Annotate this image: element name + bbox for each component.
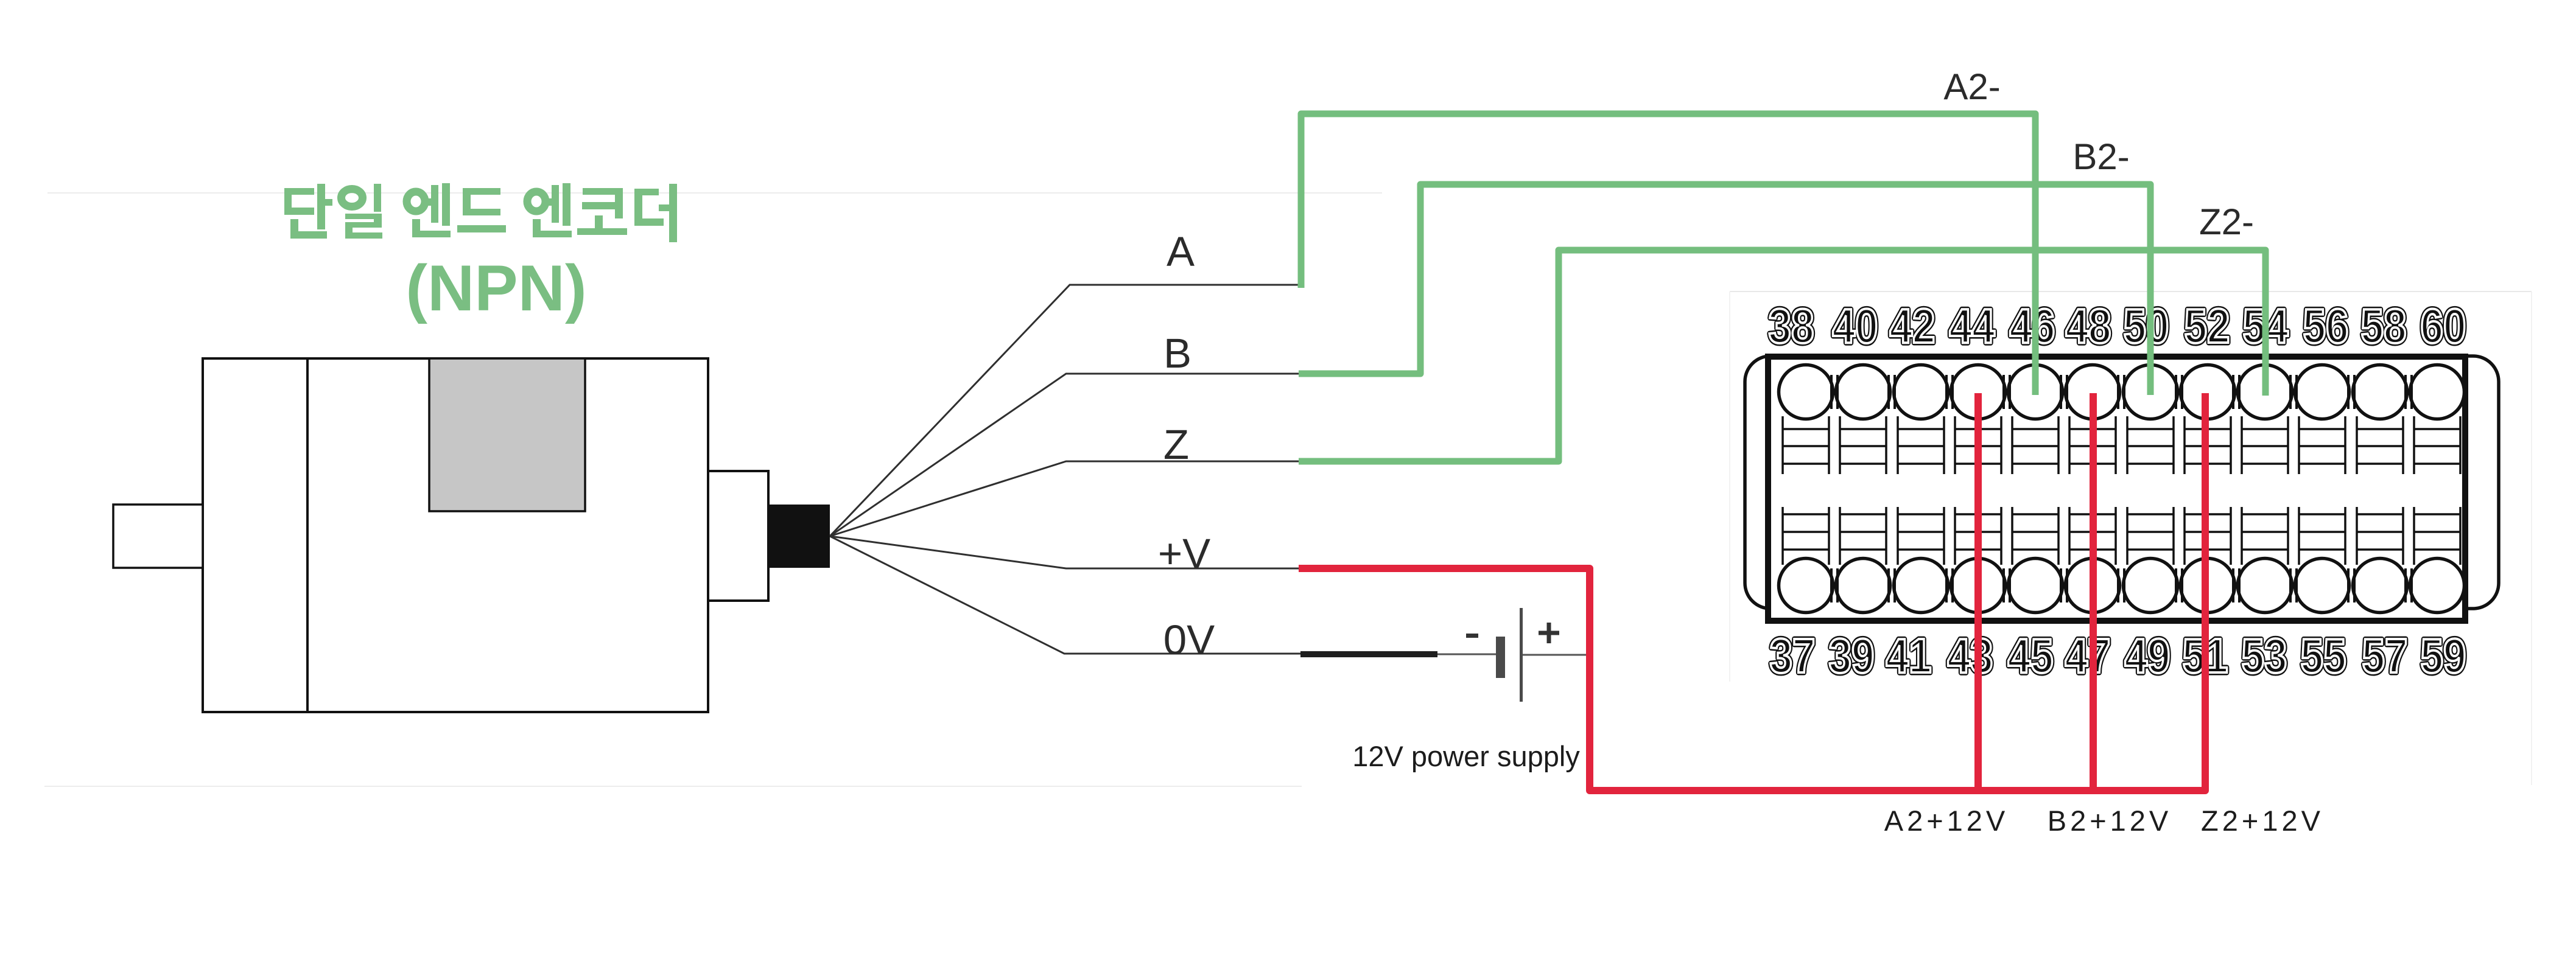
svg-text:B2+12V: B2+12V bbox=[2048, 805, 2172, 837]
encoder motor body bbox=[203, 358, 708, 712]
wire 0V from encoder bbox=[830, 536, 1300, 654]
wire A2- (green) bbox=[1301, 114, 2035, 395]
svg-text:37: 37 bbox=[1770, 629, 1816, 683]
svg-text:+V: +V bbox=[1158, 530, 1210, 577]
svg-text:59: 59 bbox=[2421, 629, 2466, 683]
svg-text:0V: 0V bbox=[1163, 616, 1215, 663]
svg-text:B2-: B2- bbox=[2072, 136, 2129, 177]
svg-text:55: 55 bbox=[2301, 629, 2346, 683]
contact ladders upper band bbox=[1783, 416, 2460, 474]
encoder cable boot (black) bbox=[768, 505, 830, 568]
pin separators top row bbox=[1831, 375, 2412, 409]
svg-text:40: 40 bbox=[1833, 299, 1878, 353]
wire Z2- (green) bbox=[1299, 250, 2265, 461]
wire 0V thick segment bbox=[1300, 651, 1437, 657]
terminal pins top row (38-60) circles bbox=[1779, 365, 2465, 419]
battery plus sign bbox=[1539, 623, 1559, 643]
wire B2- (green) bbox=[1299, 184, 2150, 395]
svg-text:42: 42 bbox=[1890, 299, 1936, 353]
svg-text:12V power supply: 12V power supply bbox=[1352, 740, 1580, 772]
svg-text:41: 41 bbox=[1886, 629, 1932, 683]
svg-text:39: 39 bbox=[1829, 629, 1875, 683]
wire +V from encoder bbox=[830, 536, 1299, 568]
svg-text:50: 50 bbox=[2124, 299, 2169, 353]
wire battery plus to red wire bbox=[1523, 654, 1590, 656]
svg-text:A2+12V: A2+12V bbox=[1884, 805, 2009, 837]
wire +V to +12V rail (red) bbox=[1299, 393, 2205, 791]
wire A from encoder bbox=[830, 285, 1299, 536]
encoder body divider line bbox=[306, 358, 309, 712]
title line 1: Korean "단일 엔드 엔코더" (single-ended encoder) bbox=[284, 183, 677, 242]
svg-text:B: B bbox=[1163, 330, 1191, 377]
svg-text:47: 47 bbox=[2065, 629, 2111, 683]
wire 0V to battery minus bbox=[1437, 654, 1496, 655]
svg-text:38: 38 bbox=[1769, 299, 1814, 353]
svg-text:45: 45 bbox=[2008, 629, 2054, 683]
wire B2+12V branch (red) bbox=[2090, 393, 2097, 791]
svg-text:53: 53 bbox=[2242, 629, 2287, 683]
svg-text:56: 56 bbox=[2303, 299, 2349, 353]
terminal block outer shell (rounded ears) bbox=[1745, 356, 2499, 609]
battery negative plate bbox=[1496, 637, 1505, 678]
battery minus sign bbox=[1466, 634, 1478, 638]
svg-text:58: 58 bbox=[2361, 299, 2407, 353]
svg-text:(NPN): (NPN) bbox=[405, 251, 586, 324]
encoder shaft bbox=[113, 505, 203, 568]
wire A2+12V branch (red) bbox=[1974, 393, 1982, 791]
svg-text:48: 48 bbox=[2066, 299, 2111, 353]
encoder connector housing bbox=[708, 471, 768, 601]
svg-text:Z2+12V: Z2+12V bbox=[2201, 805, 2324, 837]
svg-text:52: 52 bbox=[2185, 299, 2230, 353]
svg-text:Z: Z bbox=[1163, 421, 1189, 468]
terminal pins bottom row (37-59) circles bbox=[1779, 559, 2465, 613]
svg-text:43: 43 bbox=[1948, 629, 1993, 683]
contact ladders lower band bbox=[1783, 507, 2460, 565]
wire Z from encoder bbox=[830, 461, 1299, 536]
svg-text:44: 44 bbox=[1950, 299, 1995, 353]
svg-text:A: A bbox=[1167, 228, 1195, 275]
svg-text:57: 57 bbox=[2362, 629, 2408, 683]
svg-text:Z2-: Z2- bbox=[2199, 201, 2254, 242]
terminal block body bbox=[1768, 357, 2465, 621]
pin separators bottom row bbox=[1831, 568, 2412, 602]
encoder gray block bbox=[429, 358, 585, 511]
wire B from encoder bbox=[830, 374, 1299, 536]
svg-text:A2-: A2- bbox=[1943, 66, 2000, 107]
battery positive plate bbox=[1520, 608, 1523, 702]
svg-text:49: 49 bbox=[2125, 629, 2171, 683]
svg-text:60: 60 bbox=[2421, 299, 2466, 353]
